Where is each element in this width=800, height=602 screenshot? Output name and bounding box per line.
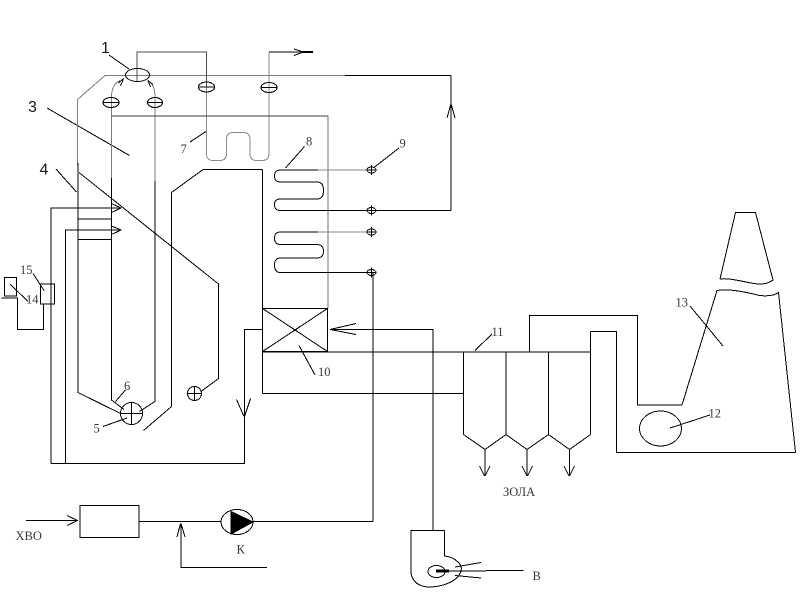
- pointer from 10: [299, 346, 315, 376]
- fan hub bar: [436, 570, 449, 573]
- economizer connection line 3: [318, 231, 367, 233]
- flue duct outer wall to stack: [530, 316, 683, 406]
- label B: [533, 569, 541, 583]
- label 7: [181, 142, 187, 156]
- svg-text:7: 7: [181, 142, 187, 156]
- ash collector 11 top: [464, 332, 591, 435]
- pointer from 14: [11, 285, 29, 302]
- furnace left wall upper: [77, 100, 79, 166]
- convective shaft left wall: [262, 170, 264, 309]
- valve on left downcomer: [103, 98, 119, 108]
- pointer from 12: [670, 415, 710, 428]
- pointer from 6: [116, 390, 126, 402]
- superheater coil 7 with inlet/outlet tubes: [207, 53, 270, 161]
- feedwater pipe down from valve 4: [372, 273, 374, 522]
- valve on right downcomer: [147, 98, 163, 108]
- label XBO: [16, 529, 42, 543]
- valve on superheater inlet: [198, 82, 215, 92]
- downcomer left upper: [111, 97, 113, 178]
- pointer from 15: [33, 274, 44, 291]
- cold air line from fan: [330, 330, 433, 531]
- label ZOLA: [503, 485, 535, 499]
- flue duct inner wall to stack: [591, 332, 796, 453]
- chimney 13 lower section: [682, 290, 796, 453]
- feedwater top line to drum: [345, 75, 451, 77]
- valve row 4: [367, 268, 377, 278]
- label 14: [26, 293, 39, 307]
- down arrow on air line: [237, 399, 251, 417]
- svg-text:4: 4: [40, 162, 49, 179]
- burner channel line 1: [78, 218, 112, 220]
- riser arrowhead left: [119, 79, 124, 87]
- boiler drum 1: [126, 69, 150, 82]
- flue duct bottom line: [263, 393, 464, 395]
- XBO inlet arrow: [26, 520, 78, 522]
- cyclone hoppers: [464, 435, 591, 450]
- feed line to pump: [139, 521, 221, 523]
- air heater left wall extension: [262, 352, 264, 394]
- label 15: [20, 263, 33, 277]
- label 10: [318, 365, 331, 379]
- lower drum 5: [120, 403, 143, 425]
- pointer from 11: [475, 334, 492, 351]
- valve row 2: [367, 206, 377, 216]
- pointer from 8: [286, 147, 305, 169]
- burner air feed 2: [66, 230, 121, 464]
- burner air feed 1: [51, 208, 121, 464]
- inner shaft hopper diagonal: [144, 407, 172, 431]
- inner shaft wall with bevel: [172, 170, 263, 407]
- svg-text:ЗОЛА: ЗОЛА: [503, 485, 535, 499]
- pump K: [221, 510, 253, 535]
- pointer from 3: [47, 108, 130, 156]
- svg-text:8: 8: [306, 135, 312, 149]
- fan hub circle: [428, 566, 445, 578]
- division wall diagonal: [79, 173, 219, 392]
- shaft bottom header circle: [187, 387, 202, 402]
- riser pipe economizer to drum: [450, 76, 452, 211]
- pointer from 9: [374, 148, 399, 168]
- economizer coil 8 upper bank: [275, 170, 324, 211]
- valve row 3: [367, 227, 377, 237]
- fuel device 14: [5, 278, 17, 297]
- condensate line with up arrow: [181, 524, 267, 568]
- svg-text:К: К: [237, 543, 246, 557]
- svg-text:ХВО: ХВО: [16, 529, 42, 543]
- ash discharge arrow 3: [569, 450, 571, 477]
- steam pipe from drum top: [137, 52, 207, 87]
- drum header line: [105, 75, 345, 77]
- label 8: [306, 135, 312, 149]
- svg-text:В: В: [533, 569, 541, 583]
- ash discharge arrow 1: [484, 450, 486, 477]
- svg-text:11: 11: [492, 325, 504, 339]
- fan outlet lines: [449, 563, 524, 579]
- economizer feed line: [320, 272, 370, 274]
- furnace left wall lower and hopper: [78, 163, 121, 414]
- hot air line to burners: [51, 330, 263, 464]
- steam output arrow: [269, 51, 313, 53]
- riser arrowhead right: [148, 81, 153, 88]
- label 11: [492, 325, 504, 339]
- pointer from 7: [190, 132, 206, 143]
- svg-text:12: 12: [709, 407, 722, 421]
- svg-text:3: 3: [28, 99, 37, 116]
- label 5: [94, 422, 100, 436]
- pointer to drum 1: [109, 55, 129, 69]
- svg-text:13: 13: [676, 296, 689, 310]
- label 6: [124, 379, 130, 393]
- ash discharge arrow 2: [526, 450, 528, 477]
- boiler top bevel: [78, 76, 106, 100]
- economizer coil 8 lower bank: [275, 232, 324, 273]
- riser tube right: [149, 81, 156, 97]
- air heater 10: [263, 309, 328, 352]
- svg-text:5: 5: [94, 422, 100, 436]
- boiler roof line: [112, 115, 329, 117]
- pointer from 4: [56, 169, 77, 192]
- label 4: [40, 162, 49, 179]
- pointer from 5: [103, 418, 127, 427]
- downcomer left lower to lower drum: [112, 178, 125, 410]
- label K: [237, 543, 246, 557]
- svg-text:14: 14: [26, 293, 39, 307]
- downcomer right upper: [154, 97, 156, 181]
- label 12: [709, 407, 722, 421]
- riser tube left: [112, 81, 121, 98]
- up arrow on riser pipe: [447, 104, 455, 119]
- chimney 13 upper section: [720, 213, 773, 285]
- label 13: [676, 296, 689, 310]
- smoke exhauster 12: [640, 411, 682, 446]
- svg-text:9: 9: [400, 137, 406, 151]
- svg-text:10: 10: [318, 365, 331, 379]
- arrowhead burner 2: [112, 226, 122, 235]
- downcomer right lower to lower drum: [140, 181, 156, 412]
- svg-text:15: 15: [20, 263, 33, 277]
- label 9: [400, 137, 406, 151]
- base line under 14: [2, 297, 19, 299]
- burner channel line 2: [78, 239, 112, 241]
- label 3: [28, 99, 37, 116]
- arrowhead burner 1: [112, 204, 122, 213]
- economizer connection line 1: [318, 169, 367, 171]
- label 1: [101, 40, 110, 57]
- wire 14 to 15: [18, 298, 44, 330]
- device 15 on air line: [41, 284, 55, 304]
- economizer outlet line to drum riser pipe: [320, 210, 451, 212]
- valve row 1: [367, 165, 377, 175]
- pointer from 13: [690, 306, 723, 346]
- arrowhead into air heater: [330, 324, 356, 335]
- water treatment box: [80, 506, 139, 538]
- flue duct top line: [263, 351, 591, 353]
- svg-text:1: 1: [101, 40, 110, 57]
- valve on steam outlet: [261, 83, 277, 93]
- convective shaft right wall: [327, 116, 329, 309]
- fan B volute: [411, 531, 461, 588]
- pump outlet line: [254, 521, 374, 523]
